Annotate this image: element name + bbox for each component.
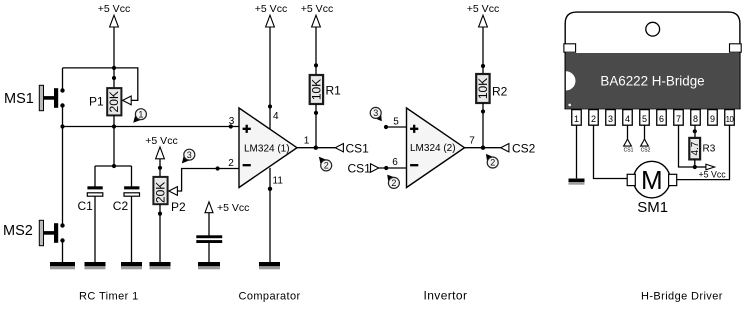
node pin11 connection bbox=[268, 187, 272, 191]
svg-text:2: 2 bbox=[490, 158, 495, 168]
node C1/C2 tee bbox=[112, 164, 116, 168]
svg-text:4.7: 4.7 bbox=[690, 141, 701, 155]
node rail-P1 junction bbox=[112, 124, 116, 128]
node rail-MS junction bbox=[60, 124, 64, 128]
svg-text:8: 8 bbox=[693, 114, 698, 124]
wire IC pin 4 lead bbox=[627, 125, 629, 140]
svg-text:20K: 20K bbox=[153, 182, 167, 203]
IC bottom-left dot bbox=[568, 104, 571, 107]
IC pin1 semicircle marker bbox=[566, 71, 576, 90]
node P2 top pin bbox=[158, 166, 162, 170]
potentiometer P2 bbox=[153, 177, 167, 204]
wire MS1 upper lead bbox=[62, 68, 64, 91]
svg-text:P1: P1 bbox=[89, 95, 104, 109]
svg-text:Invertor: Invertor bbox=[424, 289, 468, 303]
power +5Vcc supply (decoupling) bbox=[205, 202, 213, 213]
svg-text:CS1: CS1 bbox=[346, 141, 370, 155]
svg-text:CS1: CS1 bbox=[348, 161, 372, 175]
callout 2 (pin 6) bbox=[387, 175, 399, 189]
motor SM1 bbox=[634, 161, 671, 198]
svg-text:CS2: CS2 bbox=[512, 142, 536, 156]
node R3 bottom junction bbox=[693, 165, 697, 169]
svg-text:10K: 10K bbox=[476, 78, 490, 99]
callout 1 (P1) bbox=[133, 109, 146, 123]
svg-text:5: 5 bbox=[393, 117, 399, 128]
svg-text:MS2: MS2 bbox=[3, 223, 33, 239]
svg-text:R2: R2 bbox=[492, 85, 508, 99]
callout 2 (comparator output) bbox=[319, 157, 332, 171]
wire IC pin 10 to motor bbox=[677, 125, 730, 179]
wire P2 to ground bbox=[159, 204, 161, 262]
net flag CS1 (IC pin 4) bbox=[624, 139, 632, 146]
IC pin boxes 1-10 bbox=[572, 110, 582, 126]
svg-text:3: 3 bbox=[187, 150, 192, 160]
node P2 bottom pin bbox=[158, 212, 162, 216]
capacitor C1 bbox=[87, 186, 102, 189]
svg-text:MS1: MS1 bbox=[4, 91, 34, 107]
svg-text:+5 Vcc: +5 Vcc bbox=[255, 3, 287, 15]
node pin4 connection bbox=[268, 104, 272, 108]
svg-text:10K: 10K bbox=[309, 79, 323, 100]
ground (decoupling) bbox=[198, 262, 220, 266]
svg-text:10: 10 bbox=[726, 115, 735, 124]
callout 3 (P2) bbox=[182, 149, 195, 163]
capacitor C2 bbox=[124, 186, 139, 189]
svg-text:5: 5 bbox=[642, 114, 647, 124]
svg-text:2: 2 bbox=[324, 161, 329, 171]
svg-text:2: 2 bbox=[228, 158, 234, 169]
ground (C2) bbox=[121, 262, 142, 266]
svg-text:C2: C2 bbox=[113, 199, 129, 213]
wire C1-C2 connector bbox=[95, 165, 132, 167]
wire pin 5 stub bbox=[386, 126, 407, 128]
wire MS2 to ground bbox=[62, 241, 64, 263]
svg-text:4: 4 bbox=[625, 114, 630, 124]
svg-text:+5 Vcc: +5 Vcc bbox=[301, 3, 333, 15]
svg-text:3: 3 bbox=[229, 116, 235, 127]
wire IC pin 7 to R3 bottom bbox=[679, 125, 695, 167]
svg-text:+5 Vcc: +5 Vcc bbox=[98, 3, 130, 15]
ground (P2) bbox=[150, 262, 171, 266]
node pin5 connection bbox=[384, 125, 388, 129]
svg-text:2: 2 bbox=[391, 178, 396, 188]
resistor R1 bbox=[310, 75, 323, 104]
node pin3 connection bbox=[229, 124, 233, 128]
op-amp U1 LM324 (1) bbox=[239, 108, 297, 188]
svg-text:CS2: CS2 bbox=[641, 147, 651, 153]
svg-text:9: 9 bbox=[710, 114, 715, 124]
svg-text:1: 1 bbox=[304, 136, 310, 147]
svg-text:1: 1 bbox=[574, 114, 579, 124]
svg-text:LM324 (2): LM324 (2) bbox=[410, 143, 456, 154]
potentiometer P1 bbox=[107, 88, 121, 115]
wire MS1 lower contact to MS2 upper contact bbox=[62, 106, 64, 226]
svg-text:20K: 20K bbox=[107, 91, 121, 112]
IC U3 BA6222 package outline bbox=[565, 12, 740, 109]
switch MS2 bbox=[39, 220, 64, 245]
node R2 top pin bbox=[481, 64, 485, 68]
wire R2 bottom to output node bbox=[482, 103, 484, 148]
svg-text:7: 7 bbox=[676, 114, 681, 124]
switch MS1 bbox=[39, 85, 64, 110]
wire IC pin 1 to ground bbox=[576, 125, 578, 178]
node P1 top junction bbox=[112, 66, 116, 70]
node pin6 connection bbox=[384, 166, 388, 170]
svg-text:SM1: SM1 bbox=[637, 199, 668, 216]
node invertor output junction bbox=[481, 146, 485, 150]
ground (MS2) bbox=[50, 262, 75, 266]
node comparator output junction bbox=[314, 146, 318, 150]
node R1 top pin bbox=[314, 63, 318, 67]
wire rail down to C1/C2 tee bbox=[113, 127, 115, 167]
svg-text:+5 Vcc: +5 Vcc bbox=[467, 3, 499, 15]
svg-text:1: 1 bbox=[138, 109, 143, 119]
svg-text:7: 7 bbox=[469, 136, 475, 147]
IC dark body bbox=[566, 53, 739, 109]
svg-text:LM324 (1): LM324 (1) bbox=[244, 144, 290, 155]
wire P1 bottom lead bbox=[113, 115, 115, 126]
wire P1 top lead bbox=[113, 68, 115, 89]
node R1 bottom pin bbox=[314, 111, 318, 115]
svg-text:+5 Vcc: +5 Vcc bbox=[145, 135, 177, 147]
wire IC pin 8 to R3 top bbox=[694, 125, 696, 138]
svg-text:P2: P2 bbox=[171, 200, 186, 214]
svg-text:BA6222 H-Bridge: BA6222 H-Bridge bbox=[600, 74, 704, 89]
wire C1 top lead bbox=[94, 166, 96, 187]
wire C2 top lead bbox=[131, 166, 133, 187]
svg-text:CS1: CS1 bbox=[624, 147, 634, 153]
svg-text:6: 6 bbox=[659, 114, 664, 124]
node R3 top pin bbox=[693, 129, 697, 133]
node pin2 connection bbox=[216, 166, 220, 170]
wire IC pin 2 to motor bbox=[594, 125, 628, 178]
svg-text:3: 3 bbox=[608, 114, 613, 124]
resistor R3 bbox=[689, 138, 700, 160]
wire decoupling cap to ground bbox=[208, 243, 210, 263]
net flag CS2 (IC pin 5) bbox=[641, 139, 649, 146]
wire R3 junction to +5Vcc flag bbox=[695, 166, 706, 168]
IC right notch bbox=[730, 44, 742, 52]
resistor R2 bbox=[476, 74, 489, 103]
wire P2 wiper to comparator pin 2 bbox=[177, 169, 239, 192]
wire IC pin 5 lead bbox=[644, 125, 646, 140]
svg-text:11: 11 bbox=[273, 176, 284, 187]
power +5Vcc flag (motor supply) bbox=[706, 164, 715, 170]
node P1 top pin bbox=[112, 76, 116, 80]
svg-text:+5 Vcc: +5 Vcc bbox=[699, 170, 727, 180]
op-amp U2 LM324 (2) bbox=[407, 108, 465, 188]
net flag CS1 output bbox=[335, 144, 343, 152]
wire R3 bottom lead bbox=[694, 159, 696, 167]
ground (IC pin 1) bbox=[569, 179, 585, 183]
wire CS1 flag to pin 6 bbox=[379, 167, 407, 169]
wire R1 bottom to output node bbox=[315, 104, 317, 148]
wire pin 11 to ground bbox=[269, 168, 271, 263]
wire C2 to ground bbox=[131, 196, 133, 262]
IC mounting hole bbox=[646, 22, 660, 36]
svg-text:2: 2 bbox=[591, 114, 596, 124]
svg-text:4: 4 bbox=[273, 111, 279, 122]
svg-text:6: 6 bbox=[392, 157, 398, 168]
svg-text:3: 3 bbox=[373, 108, 378, 118]
IC left notch bbox=[564, 44, 576, 52]
callout 3 (pin 5) bbox=[370, 107, 382, 121]
callout 2 (invertor output) bbox=[486, 154, 498, 168]
ground (pin 11) bbox=[259, 262, 280, 266]
svg-text:R1: R1 bbox=[326, 84, 342, 98]
capacitor decoupling bbox=[196, 235, 222, 238]
node R2 bottom pin bbox=[481, 109, 485, 113]
svg-text:+5 Vcc: +5 Vcc bbox=[217, 202, 249, 214]
svg-text:Comparator: Comparator bbox=[239, 291, 301, 303]
svg-text:M: M bbox=[641, 165, 663, 195]
ground (C1) bbox=[85, 262, 106, 266]
svg-text:R3: R3 bbox=[703, 144, 716, 155]
net flag CS2 output bbox=[501, 144, 509, 152]
wire MS1/P1 top loop to wiper bbox=[63, 68, 138, 101]
svg-text:C1: C1 bbox=[78, 199, 94, 213]
svg-text:RC Timer 1: RC Timer 1 bbox=[79, 291, 139, 303]
svg-text:H-Bridge Driver: H-Bridge Driver bbox=[641, 291, 723, 303]
wire invertor output bbox=[464, 147, 501, 149]
wire comparator output bbox=[296, 147, 335, 149]
wire C1 to ground bbox=[94, 196, 96, 262]
wire input rail to comparator pin 3 bbox=[63, 126, 240, 128]
